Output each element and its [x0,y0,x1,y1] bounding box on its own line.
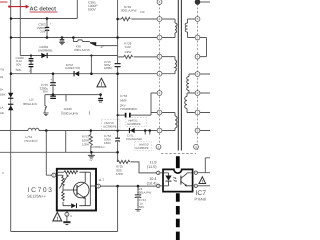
svg-text:IC7: IC7 [196,190,207,197]
svg-text:CHA04ANBJ: CHA04ANBJ [126,137,143,141]
svg-text:EC300IPE: EC300IPE [136,146,149,150]
svg-text:B+: B+ [0,88,4,91]
svg-text:+: + [50,78,52,82]
svg-text:0001AJFW: 0001AJFW [23,102,37,106]
svg-text:1/2W: 1/2W [116,172,123,176]
svg-text:50V: 50V [139,205,144,209]
svg-text:11.7: 11.7 [98,178,104,182]
svg-text:CW: CW [140,11,145,14]
svg-text:0001AJFW: 0001AJFW [137,191,151,195]
svg-text:!: ! [100,82,102,88]
svg-text:C753: C753 [120,94,128,98]
svg-text:D4024TC8: D4024TC8 [65,66,80,70]
svg-text:EC300IPE: EC300IPE [128,122,141,126]
svg-text:SML: SML [16,68,23,72]
svg-text:EC300NU+: EC300NU+ [91,145,106,149]
svg-text:0001AJFW: 0001AJFW [63,112,78,116]
svg-text:(10.4): (10.4) [147,181,158,185]
svg-text:11.8: 11.8 [149,160,156,164]
svg-text:500V: 500V [88,7,97,11]
svg-text:P'XA0l: P'XA0l [195,197,206,201]
svg-text:YPK80898CK: YPK80898CK [120,107,137,111]
svg-text:47: 47 [101,46,104,49]
svg-text:7W: 7W [0,68,4,71]
svg-text:1V: 1V [89,159,92,162]
svg-text:DBY: DBY [0,93,6,96]
svg-text:10.4: 10.4 [149,177,156,181]
svg-text:1/2W: 1/2W [82,142,89,146]
svg-text:P51T8CC: P51T8CC [25,139,39,143]
svg-text:50V: 50V [16,62,21,66]
svg-text:AB: AB [0,112,4,115]
svg-text:0001 AJFW: 0001 AJFW [121,9,137,13]
svg-text:0.22: 0.22 [125,45,131,49]
svg-text:25V: 25V [40,29,45,33]
svg-text:(11.5): (11.5) [147,165,157,169]
svg-text:SE125N++: SE125N++ [27,193,47,198]
svg-text:1/2W: 1/2W [124,50,131,54]
svg-text:JA106: JA106 [63,107,72,111]
svg-text:0001 AJFW: 0001 AJFW [74,48,90,52]
svg-text:!: ! [56,216,58,222]
svg-text:1A: 1A [0,106,3,109]
svg-text:1B: 1B [0,76,3,79]
svg-text:560P: 560P [120,98,127,102]
svg-text:20V: 20V [43,90,48,94]
svg-text:DN08866E: DN08866E [38,48,53,52]
svg-text:+: + [50,22,52,26]
svg-text:AC detect: AC detect [30,6,57,13]
svg-text:EC300IPE: EC300IPE [104,125,117,129]
svg-text:1000P: 1000P [104,66,112,70]
